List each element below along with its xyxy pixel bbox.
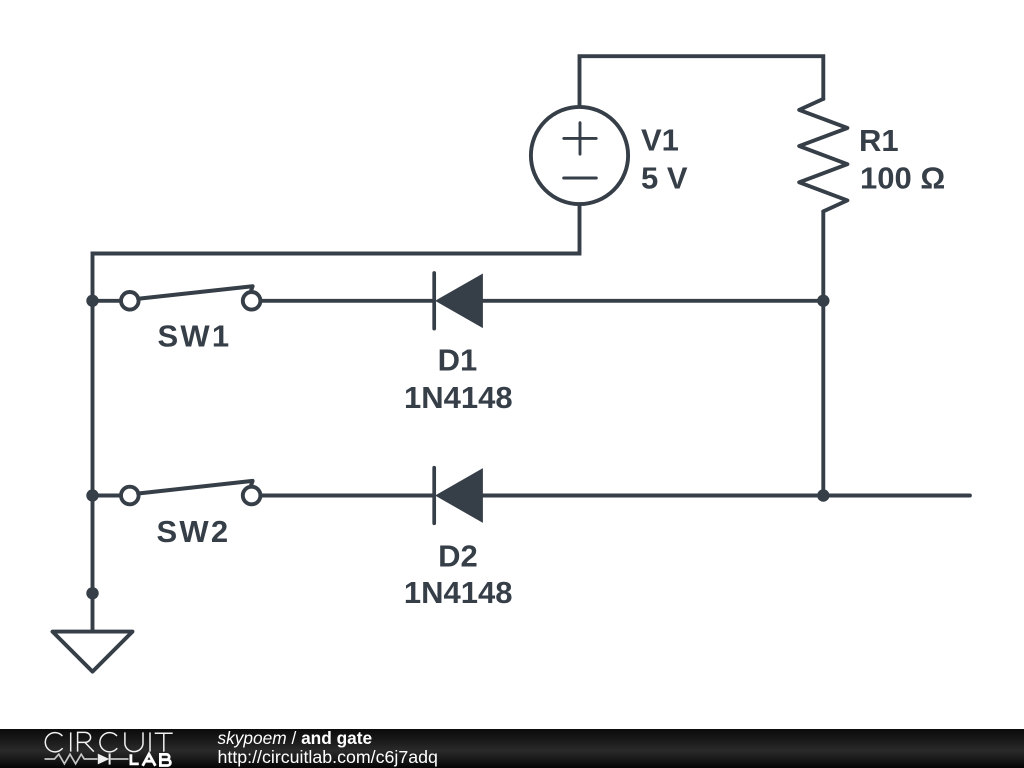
svg-text:D2: D2: [438, 539, 478, 574]
ground: [53, 632, 133, 672]
wire row1 left stub: [93, 299, 122, 303]
junction node ground: [86, 587, 98, 599]
svg-text:1N4148: 1N4148: [404, 380, 513, 415]
svg-text:SW1: SW1: [158, 319, 232, 354]
svg-text:1N4148: 1N4148: [404, 575, 513, 610]
wire SW2 to D2: [261, 494, 433, 498]
svg-text:V1: V1: [641, 122, 679, 157]
svg-text:skypoem / and gate: skypoem / and gate: [218, 728, 373, 748]
junction node row2 right: [817, 489, 829, 501]
svg-text:R1: R1: [859, 123, 899, 158]
switch SW2: [121, 481, 260, 504]
svg-text:http://circuitlab.com/c6j7adq: http://circuitlab.com/c6j7adq: [218, 747, 438, 767]
wire row2 left stub: [93, 494, 122, 498]
svg-text:SW2: SW2: [157, 514, 231, 549]
wire top loop V1 to R1: [580, 56, 824, 107]
wire R1 bottom to right rail down: [821, 211, 825, 495]
junction node row1 right: [817, 295, 829, 307]
logo diode: [98, 754, 110, 765]
junction node row1 left: [86, 295, 98, 307]
logo CIRCUIT text: [45, 732, 172, 751]
wire D2 to right output: [482, 494, 970, 498]
wire V1 bottom to left rail and down: [93, 204, 580, 631]
svg-text:D1: D1: [438, 343, 478, 378]
footer bar: [0, 729, 1024, 768]
wire SW1 to D1: [261, 299, 433, 303]
resistor R1: [799, 99, 847, 211]
diode D1: [434, 273, 482, 329]
svg-text:5 V: 5 V: [641, 160, 688, 195]
svg-text:100 Ω: 100 Ω: [860, 160, 945, 195]
voltage source V1: [531, 107, 628, 204]
switch SW1: [121, 286, 260, 309]
logo LAB text: [130, 754, 171, 766]
diode D2: [434, 468, 482, 524]
logo squiggle resistor: [45, 754, 98, 764]
wire D1 to right rail: [482, 299, 823, 303]
junction node row2 left: [86, 489, 98, 501]
